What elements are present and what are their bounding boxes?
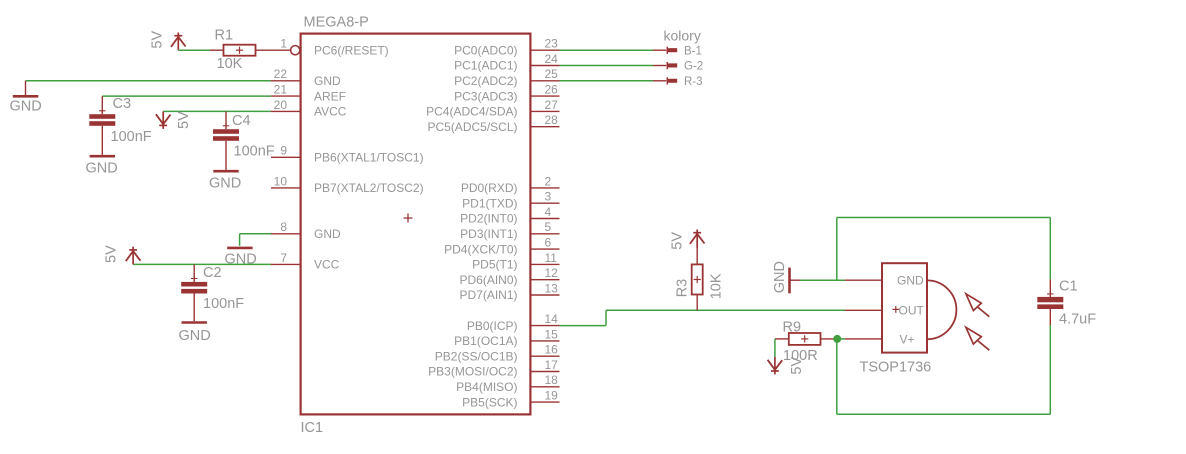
wire net R-3	[560, 80, 654, 82]
wire VCC net pin 7	[133, 263, 271, 265]
svg-text:9: 9	[280, 144, 287, 158]
supply 5V arrow (up) on VCC	[104, 245, 141, 264]
svg-text:AREF: AREF	[314, 89, 346, 103]
svg-text:PC6(/RESET): PC6(/RESET)	[314, 43, 389, 57]
svg-text:OUT: OUT	[899, 304, 925, 318]
svg-text:10K: 10K	[217, 56, 243, 72]
capacitor C4	[213, 111, 275, 169]
IC1 pin 14 PB0(ICP)	[467, 312, 560, 333]
svg-text:23: 23	[545, 37, 559, 51]
svg-text:PB2(SS/OC1B): PB2(SS/OC1B)	[435, 349, 518, 363]
wire 5V to R1	[178, 49, 210, 51]
svg-text:PB6(XTAL1/TOSC1): PB6(XTAL1/TOSC1)	[314, 151, 424, 165]
svg-text:7: 7	[280, 251, 287, 265]
svg-text:GND: GND	[10, 99, 42, 115]
svg-text:GND: GND	[225, 252, 257, 268]
IC1 name label MEGA8-P	[304, 15, 369, 31]
svg-text:27: 27	[545, 98, 559, 112]
svg-text:5V: 5V	[176, 111, 192, 129]
svg-text:PB5(SCK): PB5(SCK)	[462, 395, 517, 409]
IC1 pin 6 PD4(XCK/T0)	[444, 236, 559, 257]
svg-text:18: 18	[545, 373, 559, 387]
svg-text:100nF: 100nF	[111, 129, 152, 145]
svg-text:21: 21	[274, 83, 288, 97]
IC1 pin 2 PD0(RXD)	[461, 174, 560, 195]
IC IC1 MEGA8-P outline	[301, 34, 531, 415]
supply 5V arrow (down) on AVCC	[156, 111, 192, 129]
IC1 pin 25 PC2(ADC2)	[454, 67, 559, 88]
svg-text:5V: 5V	[670, 232, 686, 250]
IC1 pin 22 GND	[271, 67, 341, 88]
IC1 pin 17 PB3(MOSI/OC2)	[428, 358, 559, 379]
svg-text:R3: R3	[675, 279, 691, 298]
svg-text:PD2(INT0): PD2(INT0)	[460, 212, 517, 226]
wire net G-2	[560, 65, 654, 67]
svg-text:PC0(ADC0): PC0(ADC0)	[454, 43, 517, 57]
svg-text:5V: 5V	[104, 245, 120, 263]
wire C1 bottom to V+ net	[837, 325, 1051, 414]
ground symbol under C3	[86, 156, 118, 176]
svg-text:GND: GND	[209, 176, 241, 192]
svg-text:PC3(ADC3): PC3(ADC3)	[454, 89, 517, 103]
IC1 pin 13 PD7(AIN1)	[459, 281, 559, 302]
IR receiver U2 TSOP1736	[845, 263, 956, 352]
svg-text:TSOP1736: TSOP1736	[860, 360, 932, 376]
svg-text:C1: C1	[1059, 279, 1078, 295]
svg-text:PD3(INT1): PD3(INT1)	[460, 227, 517, 241]
svg-text:24: 24	[545, 52, 559, 66]
svg-text:PD4(XCK/T0): PD4(XCK/T0)	[444, 242, 517, 256]
ground symbol for TSOP GND (rotated)	[772, 261, 800, 293]
capacitor C3	[89, 96, 151, 155]
svg-text:5V: 5V	[150, 31, 166, 49]
svg-text:PD6(AIN0): PD6(AIN0)	[459, 273, 517, 287]
svg-text:19: 19	[545, 389, 559, 403]
capacitor C1 4.7uF	[1037, 279, 1096, 328]
IC1 pin 1 PC6(/RESET)	[280, 37, 388, 58]
svg-text:MEGA8-P: MEGA8-P	[304, 15, 369, 31]
svg-text:PB1(OC1A): PB1(OC1A)	[454, 334, 517, 348]
svg-text:B-1: B-1	[684, 45, 702, 57]
IC1 pin 12 PD6(AIN0)	[459, 266, 559, 287]
svg-text:13: 13	[545, 281, 559, 295]
svg-text:V+: V+	[900, 332, 915, 346]
svg-text:10: 10	[274, 174, 288, 188]
svg-text:11: 11	[545, 251, 558, 265]
svg-text:26: 26	[545, 83, 559, 97]
svg-text:3: 3	[545, 190, 552, 204]
svg-text:PC4(ADC4/SDA): PC4(ADC4/SDA)	[426, 105, 517, 119]
IC1 pin 11 PD5(T1)	[472, 251, 559, 272]
svg-text:C4: C4	[232, 113, 251, 129]
IC1 pin 27 PC4(ADC4/SDA)	[426, 98, 559, 119]
wire GND net pin 8	[240, 234, 271, 246]
TSOP1736 value label	[860, 360, 932, 376]
capacitor C2	[181, 264, 244, 321]
svg-text:R-3: R-3	[684, 76, 703, 88]
svg-text:10K: 10K	[709, 273, 725, 299]
IC1 pin 26 PC3(ADC3)	[454, 83, 559, 104]
IR arrow upper	[966, 294, 989, 317]
IC1 pin 20 AVCC	[271, 98, 347, 119]
svg-text:20: 20	[274, 98, 288, 112]
net label kolory	[664, 28, 701, 44]
ground symbol under C4	[209, 171, 241, 191]
ground symbol pin 8	[225, 248, 257, 268]
IC1 pin 24 PC1(ADC1)	[454, 52, 559, 73]
wire AVCC net pin 20	[163, 110, 271, 112]
svg-text:28: 28	[545, 113, 559, 127]
IC1 pin 28 PC5(ADC5/SCL)	[427, 113, 559, 134]
IC1 designator IC1	[301, 420, 324, 436]
svg-text:17: 17	[545, 358, 559, 372]
svg-text:G-2: G-2	[684, 61, 703, 73]
IC1 pin 5 PD3(INT1)	[460, 220, 559, 241]
wire R9 to 5V	[774, 339, 776, 357]
svg-text:R9: R9	[783, 320, 802, 336]
svg-text:25: 25	[545, 67, 559, 81]
wire AREF net pin 21 to C3	[102, 95, 271, 97]
svg-text:100nF: 100nF	[234, 144, 275, 160]
svg-text:14: 14	[545, 312, 559, 326]
IC1 pin 7 VCC	[271, 251, 340, 272]
ground symbol under C2	[179, 323, 211, 345]
IR arrow lower	[966, 327, 989, 350]
net flag B-1	[653, 45, 702, 57]
wire TSOP GND net	[800, 218, 1050, 281]
svg-text:PD7(AIN1): PD7(AIN1)	[459, 288, 517, 302]
supply 5V arrow (down) for R9	[768, 357, 805, 375]
IC1 pin 9 PB6(XTAL1/TOSC1)	[271, 144, 424, 165]
svg-text:C2: C2	[203, 265, 222, 281]
svg-text:1: 1	[280, 37, 287, 51]
svg-text:8: 8	[280, 220, 287, 234]
supply 5V arrow (up) for R1	[150, 31, 186, 51]
IC1 pin 18 PB4(MISO)	[456, 373, 559, 394]
svg-text:22: 22	[274, 67, 288, 81]
svg-text:PB0(ICP): PB0(ICP)	[467, 319, 518, 333]
IC1 pin 3 PD1(TXD)	[462, 190, 559, 211]
net flag G-2	[653, 61, 703, 73]
IC1 pin 16 PB2(SS/OC1B)	[435, 343, 560, 364]
wire GND net from pin 22	[26, 80, 272, 82]
svg-text:PC1(ADC1): PC1(ADC1)	[454, 59, 517, 73]
svg-text:IC1: IC1	[301, 420, 324, 436]
svg-text:PC2(ADC2): PC2(ADC2)	[454, 74, 517, 88]
svg-text:PB4(MISO): PB4(MISO)	[456, 380, 517, 394]
resistor R1 10K	[210, 28, 290, 73]
svg-text:PB7(XTAL2/TOSC2): PB7(XTAL2/TOSC2)	[314, 181, 424, 195]
svg-text:AVCC: AVCC	[314, 105, 347, 119]
svg-text:PB3(MOSI/OC2): PB3(MOSI/OC2)	[428, 365, 517, 379]
IC1 pin 21 AREF	[271, 83, 346, 104]
resistor R9 100R	[775, 320, 837, 365]
supply 5V arrow (up) for R3	[670, 230, 705, 250]
svg-text:5: 5	[545, 220, 552, 234]
svg-text:4: 4	[545, 205, 552, 219]
svg-text:PD1(TXD): PD1(TXD)	[462, 196, 517, 210]
svg-text:16: 16	[545, 343, 559, 357]
svg-text:R1: R1	[215, 28, 234, 44]
svg-text:2: 2	[545, 174, 552, 188]
IC1 pin 4 PD2(INT0)	[460, 205, 559, 226]
svg-text:GND: GND	[897, 274, 924, 288]
svg-text:GND: GND	[314, 74, 341, 88]
IC1 pin 23 PC0(ADC0)	[454, 37, 559, 58]
svg-text:VCC: VCC	[314, 258, 340, 272]
svg-text:4.7uF: 4.7uF	[1059, 312, 1096, 328]
svg-text:12: 12	[545, 266, 559, 280]
svg-text:6: 6	[545, 236, 552, 250]
resistor R3 10K	[675, 249, 725, 311]
IC1 pin 19 PB5(SCK)	[462, 389, 559, 410]
IC1 pin 10 PB7(XTAL2/TOSC2)	[271, 174, 424, 195]
svg-text:PD0(RXD): PD0(RXD)	[461, 181, 518, 195]
svg-text:GND: GND	[772, 261, 788, 293]
svg-text:GND: GND	[314, 227, 341, 241]
svg-text:C3: C3	[113, 96, 132, 112]
IC1 pin 8 GND	[271, 220, 341, 241]
svg-text:PD5(T1): PD5(T1)	[472, 258, 517, 272]
ground symbol far left	[10, 81, 42, 115]
svg-text:5V: 5V	[789, 357, 805, 375]
svg-text:GND: GND	[179, 328, 211, 344]
wire net B-1	[560, 49, 654, 51]
junction dot V+ node	[833, 335, 841, 343]
svg-text:100nF: 100nF	[203, 296, 244, 312]
svg-text:15: 15	[545, 327, 559, 341]
wire PB0 net pin 14 to TSOP OUT	[560, 310, 846, 325]
svg-text:PC5(ADC5/SCL): PC5(ADC5/SCL)	[427, 120, 517, 134]
svg-text:kolory: kolory	[664, 28, 701, 44]
net flag R-3	[653, 76, 703, 88]
IC1 pin 15 PB1(OC1A)	[454, 327, 559, 348]
svg-text:GND: GND	[86, 161, 118, 177]
